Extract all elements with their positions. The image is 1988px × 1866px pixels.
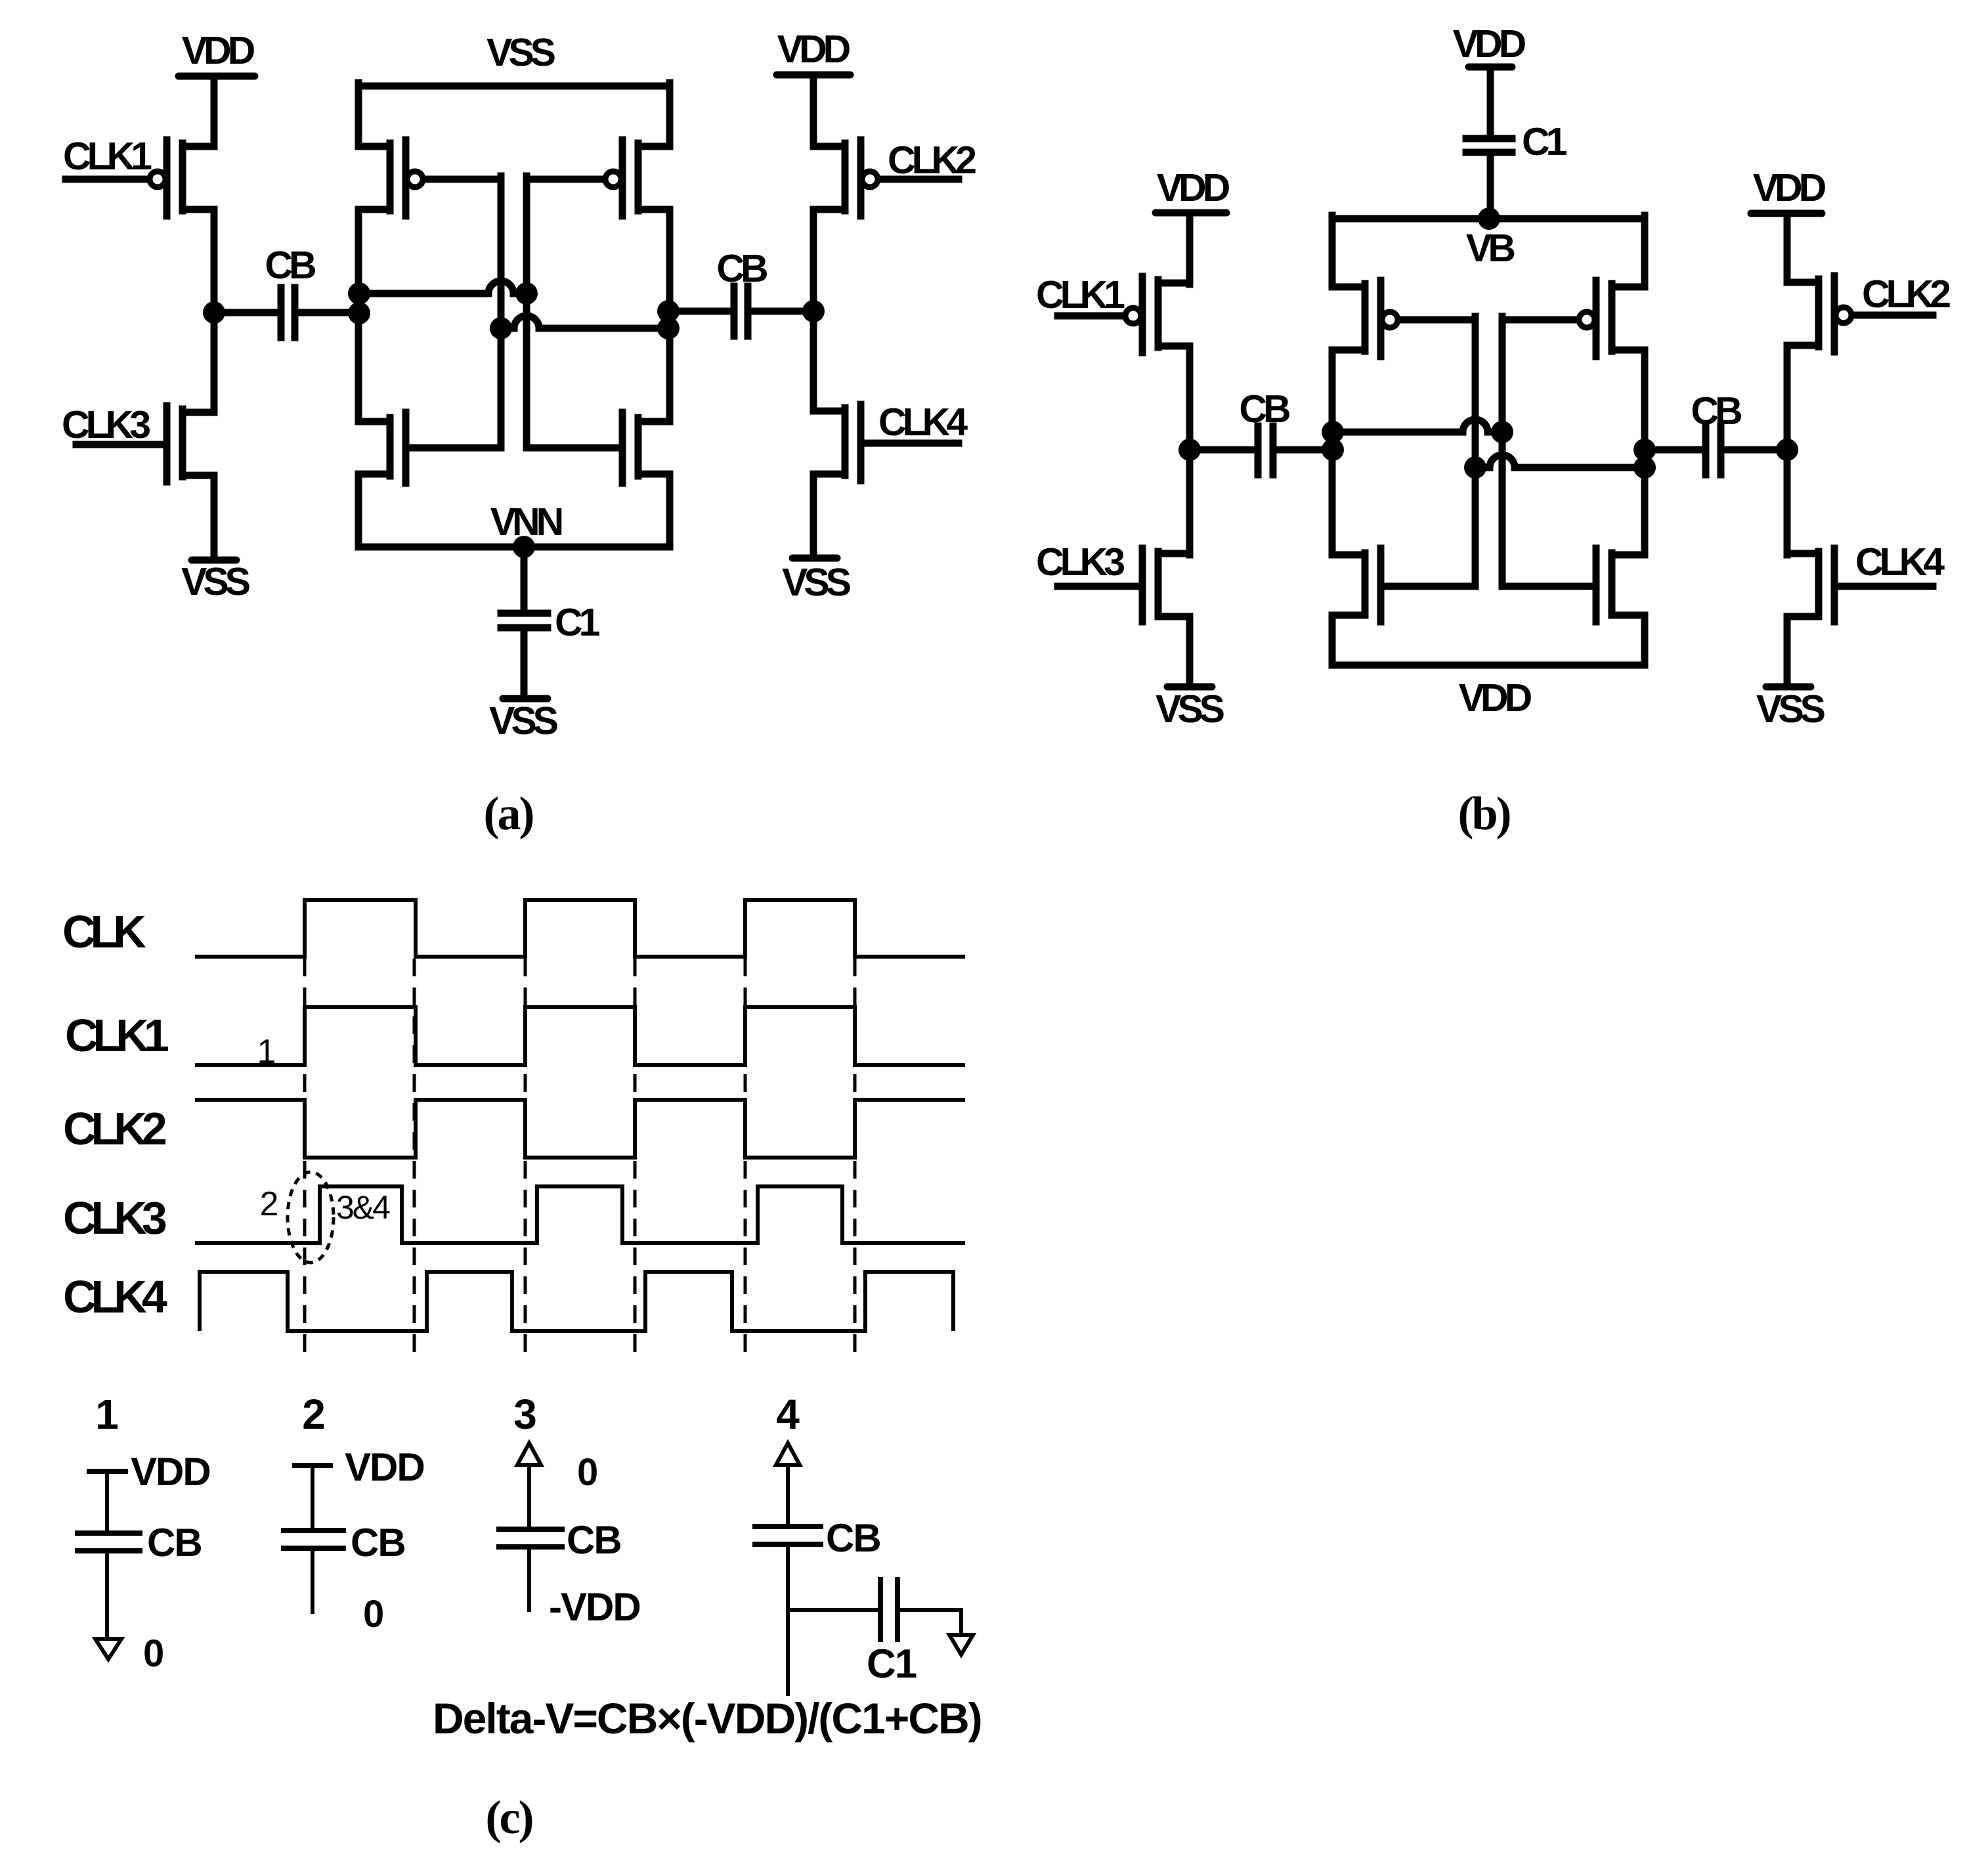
svg-text:VDD: VDD xyxy=(131,1450,210,1494)
dashed timeline t6 xyxy=(854,959,857,1361)
node OUT-b junction xyxy=(1776,439,1798,461)
wire lower cross horizontal with hop (b) xyxy=(1475,455,1645,467)
power VSS (a right) xyxy=(782,558,851,604)
svg-text:VDD: VDD xyxy=(777,28,850,71)
wire M9 gate to cross line (b) xyxy=(1400,316,1475,324)
wire M5 gate (a) xyxy=(406,445,501,452)
wire state 1 top xyxy=(105,1471,109,1533)
wire CLK4 gate (b) xyxy=(1838,583,1933,590)
transistor M10 PMOS latch-right (b) xyxy=(1579,280,1645,357)
svg-text:VDD: VDD xyxy=(1753,166,1826,209)
wire state 1 bottom xyxy=(105,1551,109,1639)
transistor M11 NMOS latch-left (b) xyxy=(1332,548,1381,622)
power VDD (b top) xyxy=(1453,22,1526,67)
dashed timeline t4 xyxy=(634,959,637,1361)
wire M16 to VSS (b right) xyxy=(1784,617,1791,687)
wire VDD to M7 (a right) xyxy=(810,75,817,146)
wire right rail (a) xyxy=(666,83,674,547)
wire CLK2 gate (b) xyxy=(1853,312,1933,319)
wire VDD to M13 (b left) xyxy=(1186,213,1194,284)
transistor M15 PMOS CLK2 (b) xyxy=(1787,276,1851,352)
svg-text:-VDD: -VDD xyxy=(549,1585,640,1629)
wire bottom rail VNN (a) xyxy=(358,544,670,551)
svg-text:C1: C1 xyxy=(555,601,600,644)
wire M10 gate to cross line (b) xyxy=(1502,316,1578,324)
wire CB to node OUT-a xyxy=(752,308,813,315)
wire VDD to C1 (b) xyxy=(1487,67,1494,139)
dashed timeline t5 xyxy=(744,959,747,1361)
waveform CLK xyxy=(195,900,965,957)
transistor M3 PMOS latch-left (a) xyxy=(358,140,423,216)
svg-text:CLK3: CLK3 xyxy=(1036,540,1124,584)
wire M13 to node IN-b xyxy=(1186,346,1194,450)
wire state 4 vertical xyxy=(786,1544,790,1694)
transistor M6 NMOS latch-right (a) xyxy=(622,412,670,483)
ground state 1 xyxy=(95,1639,121,1659)
arrow up state 3 xyxy=(517,1443,541,1465)
wire M2 source to VSS (a left) xyxy=(211,475,218,560)
wire CB to latch left rail (a) xyxy=(299,309,359,316)
node B lower-horizontal junction at right rail (b) xyxy=(1633,456,1656,479)
wire CB to node OUT-b xyxy=(1725,446,1787,454)
wire CLK3 gate (a) xyxy=(76,441,163,448)
wire M12 gate (b) xyxy=(1502,583,1596,590)
svg-text:4: 4 xyxy=(776,1391,800,1438)
wire cross vertical right (a) xyxy=(523,176,530,448)
wire VNN to C1 (a) xyxy=(521,547,528,613)
wire node to M8 (a) xyxy=(810,311,817,411)
arrow up state 4 xyxy=(776,1443,800,1465)
svg-text:VB: VB xyxy=(1466,227,1514,270)
node B lower-horizontal junction at right rail (a) xyxy=(657,317,680,339)
transistor M5 NMOS latch-left (a) xyxy=(358,412,406,483)
wire rail to CB (b right) xyxy=(1645,446,1702,454)
node VB junction (b) xyxy=(1478,207,1500,230)
power VSS (a bottom) xyxy=(489,699,558,743)
svg-text:CLK3: CLK3 xyxy=(63,1192,166,1244)
wire cross vertical left (b) xyxy=(1472,316,1479,586)
wire C1 to ground state 4 xyxy=(897,1610,961,1635)
wire node to M2 (a) xyxy=(211,313,218,412)
wire M15 to node OUT-b xyxy=(1784,345,1791,450)
svg-text:1: 1 xyxy=(257,1033,276,1071)
svg-text:2: 2 xyxy=(260,1185,279,1223)
power VDD (a left) xyxy=(179,29,255,76)
wire C1 to VSS (a) xyxy=(521,628,528,699)
svg-text:VSS: VSS xyxy=(1756,687,1825,731)
ground state 4 xyxy=(949,1635,973,1655)
wire lower cross horizontal with hop (a) xyxy=(501,316,670,328)
wire CLK3 gate (b) xyxy=(1058,583,1139,590)
waveform CLK2 xyxy=(195,1100,965,1158)
wire upper cross horizontal with hop (a) xyxy=(359,281,527,293)
wire M6 gate (a) xyxy=(527,445,622,452)
svg-text:CLK2: CLK2 xyxy=(888,139,976,182)
svg-text:VNN: VNN xyxy=(490,500,562,544)
wire cross vertical right (b) xyxy=(1499,316,1506,586)
svg-text:C1: C1 xyxy=(867,1641,917,1687)
wire M4 gate to cross line (a) xyxy=(527,176,603,183)
waveform CLK1 xyxy=(195,1007,965,1065)
svg-text:CB: CB xyxy=(826,1516,880,1560)
svg-text:VDD: VDD xyxy=(1453,22,1526,66)
wire node to M14 (b) xyxy=(1186,450,1194,555)
wire right rail (b) xyxy=(1641,215,1649,665)
wire state 4 to C1 xyxy=(788,1608,877,1612)
ellipse highlight CLK3 edge xyxy=(288,1172,334,1263)
node IN-b junction xyxy=(1178,439,1201,461)
node CB junction right rail (b) xyxy=(1633,439,1656,461)
waveform CLK3 xyxy=(195,1186,965,1243)
dashed timeline t3 xyxy=(524,959,527,1361)
svg-text:0: 0 xyxy=(143,1632,164,1675)
capacitor CB (b left) xyxy=(1258,426,1273,475)
power VSS (a left) xyxy=(181,560,250,603)
svg-text:VSS: VSS xyxy=(782,561,851,604)
svg-text:Delta-V=CB×(-VDD)/(C1+CB): Delta-V=CB×(-VDD)/(C1+CB) xyxy=(433,1694,982,1743)
wire VDD to M1 (a left) xyxy=(211,76,218,146)
svg-text:VDD: VDD xyxy=(1459,676,1532,720)
transistor M8 NMOS CLK4 (a) xyxy=(813,404,861,481)
wire state 2 bottom xyxy=(311,1548,314,1612)
svg-text:0: 0 xyxy=(577,1451,598,1494)
svg-text:VSS: VSS xyxy=(486,31,555,74)
wire top rail VSS (a) xyxy=(358,83,670,90)
transistor M14 NMOS CLK3 (b) xyxy=(1142,548,1190,622)
svg-text:C1: C1 xyxy=(1522,120,1567,163)
svg-text:CLK2: CLK2 xyxy=(63,1103,166,1154)
node CB junction right rail (a) xyxy=(657,300,680,322)
node IN-a junction xyxy=(203,301,225,324)
dashed timeline t2 xyxy=(413,959,416,1361)
node A upper-horizontal junction at left rail (a) xyxy=(348,282,370,305)
wire CLK1 gate (a) xyxy=(66,176,148,183)
svg-text:CLK1: CLK1 xyxy=(1036,273,1125,316)
svg-text:CLK4: CLK4 xyxy=(1855,540,1945,584)
wire M3 gate to cross line (a) xyxy=(425,176,501,183)
wire state 2 top xyxy=(311,1465,314,1530)
svg-text:1: 1 xyxy=(95,1391,119,1438)
capacitor C1 (b) xyxy=(1466,139,1512,152)
svg-text:(c): (c) xyxy=(486,1791,532,1844)
dashed timeline t1 xyxy=(303,959,307,1361)
wire CB to latch left rail (b) xyxy=(1277,446,1332,454)
wire VDD to M15 (b right) xyxy=(1784,213,1791,282)
wire M7 to node OUT-a xyxy=(810,209,817,311)
svg-text:CLK1: CLK1 xyxy=(65,1010,168,1061)
svg-text:VSS: VSS xyxy=(489,699,558,743)
svg-text:CLK3: CLK3 xyxy=(62,403,150,446)
svg-text:CLK1: CLK1 xyxy=(63,135,152,178)
wire node to CB (a left) xyxy=(214,309,277,316)
wire CLK4 gate (a) xyxy=(865,440,959,447)
transistor M4 PMOS latch-right (a) xyxy=(605,140,670,216)
node gate-left junction (a) xyxy=(490,317,512,339)
power VDD (a right) xyxy=(777,28,850,75)
wire node to M16 (b) xyxy=(1784,450,1791,555)
capacitor C1 state 4 xyxy=(880,1580,897,1639)
wire state 4 top xyxy=(786,1465,790,1527)
capacitor CB state 4 xyxy=(755,1527,821,1544)
transistor M13 PMOS CLK1 (b) xyxy=(1125,276,1190,353)
svg-text:CLK4: CLK4 xyxy=(63,1271,167,1322)
power VSS (b left) xyxy=(1156,687,1224,731)
svg-text:VDD: VDD xyxy=(345,1445,424,1489)
svg-text:CB: CB xyxy=(1691,389,1741,433)
node gate-left junction (b) xyxy=(1464,456,1486,479)
svg-text:CLK2: CLK2 xyxy=(1862,272,1950,316)
power VDD (b left) xyxy=(1156,166,1230,213)
svg-text:CB: CB xyxy=(351,1521,405,1565)
svg-text:VDD: VDD xyxy=(1157,166,1230,209)
wire upper cross horizontal with hop (b) xyxy=(1333,420,1502,432)
terminal VDD bar state 1 xyxy=(89,1469,125,1474)
capacitor CB (a right) xyxy=(734,286,748,336)
transistor M7 PMOS CLK2 (a) xyxy=(813,140,878,216)
wire left rail (a) xyxy=(355,83,362,547)
capacitor CB state 2 xyxy=(284,1530,343,1548)
capacitor C1 (a) xyxy=(501,613,548,628)
svg-text:3: 3 xyxy=(513,1391,537,1438)
svg-text:3&4: 3&4 xyxy=(336,1189,390,1226)
svg-text:CB: CB xyxy=(716,247,767,290)
svg-text:(b): (b) xyxy=(1458,787,1510,840)
svg-text:VSS: VSS xyxy=(1156,687,1224,731)
capacitor CB (b right) xyxy=(1706,426,1721,475)
transistor M12 NMOS latch-right (b) xyxy=(1596,548,1645,622)
svg-text:CB: CB xyxy=(567,1518,621,1562)
wire rail to CB (a right) xyxy=(670,308,731,315)
waveform CLK4 xyxy=(200,1272,953,1331)
wire left rail (b) xyxy=(1329,215,1336,665)
transistor M16 NMOS CLK4 (b) xyxy=(1787,548,1834,622)
node gate-right junction (a) xyxy=(515,282,538,305)
wire M14 to VSS (b left) xyxy=(1186,617,1194,687)
transistor M1 PMOS CLK1 (a) xyxy=(150,140,214,216)
svg-text:VDD: VDD xyxy=(182,29,255,72)
node CB junction left rail (b) xyxy=(1322,439,1344,461)
wire state 3 bottom xyxy=(527,1547,531,1610)
wire M1 drain to node IN-a xyxy=(211,209,218,313)
power VSS (b right) xyxy=(1756,687,1825,731)
wire top rail VB (b) xyxy=(1332,215,1645,223)
wire cross vertical left (a) xyxy=(498,176,505,448)
svg-text:CLK4: CLK4 xyxy=(878,401,968,444)
node OUT-a junction xyxy=(802,300,825,322)
node CB junction left rail (a) xyxy=(348,302,370,324)
node A upper-horizontal junction at left rail (b) xyxy=(1322,421,1344,443)
wire M11 gate (b) xyxy=(1381,583,1475,590)
svg-text:CB: CB xyxy=(1239,387,1289,431)
svg-text:0: 0 xyxy=(363,1593,384,1636)
svg-text:VSS: VSS xyxy=(181,560,250,603)
transistor M2 NMOS CLK3 (a) xyxy=(167,406,214,482)
power VDD (b right) xyxy=(1751,166,1826,213)
wire M8 to VSS (a right) xyxy=(810,474,817,558)
transistor M9 PMOS latch-left (b) xyxy=(1332,280,1398,357)
svg-text:(a): (a) xyxy=(484,787,533,840)
svg-text:CLK: CLK xyxy=(62,906,146,957)
node VNN junction (a) xyxy=(513,536,535,558)
wire bottom rail VDD (b) xyxy=(1332,662,1645,669)
wire C1 to node VB (b) xyxy=(1487,152,1494,219)
capacitor CB (a left) xyxy=(281,288,295,337)
wire CLK1 gate (b) xyxy=(1058,313,1124,320)
terminal VDD bar state 2 xyxy=(295,1463,330,1468)
svg-text:2: 2 xyxy=(302,1391,326,1438)
svg-text:CB: CB xyxy=(147,1521,202,1565)
wire CLK2 gate (a) xyxy=(879,176,959,183)
capacitor CB state 3 xyxy=(499,1529,562,1547)
wire node to CB (b left) xyxy=(1190,446,1255,454)
wire state 3 top xyxy=(527,1465,531,1529)
svg-text:CB: CB xyxy=(265,244,315,287)
node gate-right junction (b) xyxy=(1491,421,1513,443)
capacitor CB state 1 xyxy=(77,1533,140,1551)
